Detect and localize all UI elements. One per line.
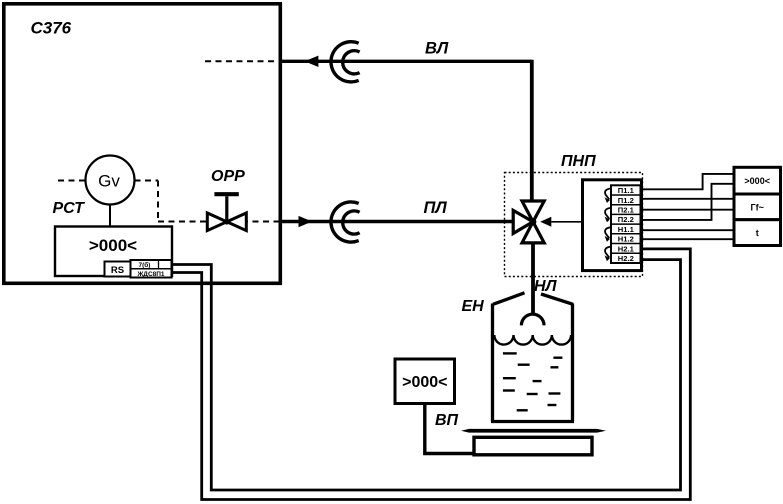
svg-text:П2.1: П2.1 [618, 206, 635, 215]
svg-text:Н2.1: Н2.1 [618, 244, 635, 253]
svg-text:НЛ: НЛ [534, 278, 558, 295]
svg-text:>000<: >000< [89, 236, 137, 255]
svg-text:ПЛ: ПЛ [424, 199, 448, 217]
svg-text:Н1.2: Н1.2 [618, 235, 634, 244]
svg-text:П1.2: П1.2 [618, 196, 634, 205]
svg-text:РСТ: РСТ [53, 200, 86, 217]
svg-text:7(б): 7(б) [139, 261, 151, 269]
svg-text:>000<: >000< [744, 176, 770, 186]
svg-text:ЖДС8П1: ЖДС8П1 [136, 271, 164, 278]
svg-text:ВЛ: ВЛ [425, 40, 449, 58]
svg-text:Н2.2: Н2.2 [618, 254, 634, 263]
svg-text:ВП: ВП [435, 412, 459, 429]
svg-text:Gv: Gv [98, 172, 120, 191]
svg-text:П1.1: П1.1 [618, 186, 635, 195]
svg-text:>000<: >000< [402, 374, 447, 391]
svg-text:С376: С376 [31, 19, 72, 38]
svg-text:Н1.1: Н1.1 [618, 225, 635, 234]
svg-text:ОРР: ОРР [211, 168, 245, 185]
svg-text:t: t [756, 228, 759, 238]
svg-text:ПНП: ПНП [561, 153, 596, 170]
svg-text:ЕН: ЕН [462, 298, 485, 315]
svg-text:П2.2: П2.2 [618, 215, 634, 224]
svg-text:Гf~: Гf~ [751, 203, 764, 213]
svg-text:RS: RS [111, 265, 124, 276]
